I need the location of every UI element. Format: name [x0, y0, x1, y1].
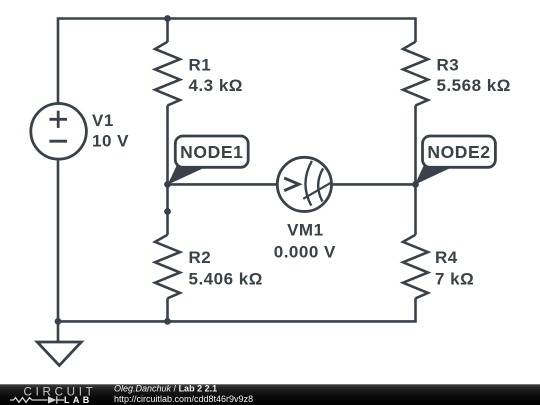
svg-text:R3: R3: [437, 56, 460, 75]
resistor R1: [155, 42, 180, 106]
junction dot R2 top terminal: [164, 208, 171, 215]
node NODE2 flag tail: [415, 166, 453, 185]
wire VM1 right terminal to NODE2: [332, 183, 416, 186]
node NODE1 flag box: [175, 136, 248, 167]
svg-text:V1: V1: [92, 111, 114, 130]
wire R1 top lead: [166, 19, 169, 43]
svg-text:http://circuitlab.com/cdd8t46r: http://circuitlab.com/cdd8t46r9v9z8: [114, 394, 253, 404]
svg-text:VM1: VM1: [287, 221, 323, 240]
svg-text:NODE1: NODE1: [180, 142, 243, 162]
resistor R2: [155, 235, 180, 299]
CircuitLab logo schematic squiggle (resistor + diode): [10, 396, 64, 403]
svg-text:5.568 kΩ: 5.568 kΩ: [437, 76, 511, 95]
svg-text:R4: R4: [435, 248, 458, 267]
svg-text:0.000 V: 0.000 V: [274, 242, 336, 261]
wire ground stub: [57, 321, 60, 342]
footer bar: [0, 384, 540, 405]
junction dot top rail / R1: [164, 15, 171, 22]
svg-text:R2: R2: [189, 248, 212, 267]
CircuitLab logo diode triangle: [48, 396, 56, 403]
wire R2 bottom lead: [166, 298, 169, 321]
wire R1 bottom to NODE1 to R2 top: [166, 105, 169, 234]
wire R3 bottom through NODE2 to R4 top: [414, 105, 417, 234]
svg-text:4.3 kΩ: 4.3 kΩ: [189, 76, 243, 95]
resistor R3: [403, 42, 428, 106]
voltmeter VM1: [277, 157, 331, 211]
ground symbol: [37, 342, 81, 366]
wire top rail from V1 top over to R3 top: [58, 19, 416, 104]
svg-text:5.406 kΩ: 5.406 kΩ: [189, 270, 263, 289]
svg-text:R1: R1: [189, 56, 212, 75]
wire V1 bottom along bottom rail up to R4 bottom: [58, 159, 416, 322]
node NODE2 flag box: [423, 136, 496, 167]
junction dot NODE2: [412, 181, 419, 188]
svg-text:NODE2: NODE2: [427, 142, 490, 162]
svg-text:LAB: LAB: [64, 395, 93, 405]
svg-text:7 kΩ: 7 kΩ: [435, 270, 474, 289]
wire NODE1 to VM1 left terminal: [168, 183, 278, 186]
resistor R4: [403, 235, 428, 299]
svg-text:Oleg.Danchuk / Lab 2 2.1: Oleg.Danchuk / Lab 2 2.1: [114, 384, 217, 394]
svg-text:10 V: 10 V: [92, 132, 129, 151]
voltage source V1: [31, 104, 87, 160]
node NODE1 flag tail: [168, 166, 207, 185]
junction dot R2 bottom / bottom rail: [164, 318, 171, 325]
junction dot NODE1: [164, 181, 171, 188]
junction dot ground / bottom rail: [55, 318, 62, 325]
